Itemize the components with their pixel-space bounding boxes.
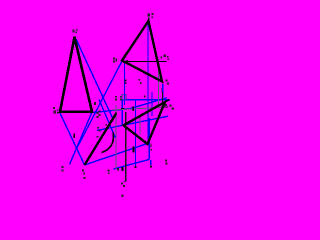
label x near c' bbox=[97, 111, 101, 119]
wire blue D2 from c' bbox=[70, 112, 93, 165]
label colon dots left of square bbox=[115, 96, 121, 100]
triangle profile view a''b''c'' bbox=[122, 21, 162, 82]
label b' bbox=[73, 29, 78, 33]
label mark near x116 y113 bbox=[115, 113, 117, 115]
thick black diagonal bbox=[85, 114, 116, 165]
label right of thin horizontal bbox=[161, 55, 170, 61]
label near D2 end bbox=[61, 166, 63, 171]
wire blue vertical x163 from c'' bbox=[162, 84, 164, 100]
label a' bbox=[53, 107, 59, 114]
wire blue vertical x126 from a'' bbox=[124, 63, 126, 105]
black dash on x122 bbox=[121, 108, 125, 110]
tick on blue line 2 bbox=[121, 167, 123, 171]
wire blue E from a'' down-left bbox=[77, 61, 122, 148]
label c' bbox=[94, 102, 96, 105]
wire blue D4 parallel bbox=[99, 100, 116, 139]
label c1 bbox=[170, 105, 175, 110]
dots on x126 bbox=[125, 80, 127, 82]
label right of line 2 end bbox=[165, 160, 168, 165]
dot under c1 bbox=[165, 104, 167, 106]
tick on S1 bbox=[132, 107, 134, 111]
label 5 under line2 tick bbox=[117, 168, 119, 171]
arc bbox=[102, 133, 114, 153]
wire blue vertical x152 bbox=[151, 92, 153, 116]
wire blue D3 from b' bbox=[76, 39, 113, 119]
wire blue D1 from a' bbox=[60, 112, 85, 165]
wire blue vertical x135.5 bbox=[135, 100, 137, 167]
wire blue shallow S1 bbox=[93, 98, 167, 113]
label dots inside profile triangle bbox=[138, 79, 145, 98]
label b'' bbox=[148, 13, 154, 19]
label near thick diagonal end bbox=[82, 170, 85, 179]
wire blue vertical under b1 bbox=[148, 118, 150, 160]
wire gray vertical x140 bbox=[139, 116, 141, 134]
wire blue shallow S2 through a1 bbox=[97, 116, 168, 130]
label dot near S2 bbox=[97, 124, 107, 132]
wire blue vertical x122 square to a1 bbox=[121, 100, 123, 126]
label a'' bbox=[113, 58, 117, 63]
dot end x135.5 bbox=[135, 166, 137, 168]
wire gray vertical g2 x125.7 bbox=[125, 112, 127, 182]
dot end of stub bbox=[150, 166, 152, 168]
dot near D1 tick bbox=[97, 136, 99, 138]
dots on x163 bbox=[162, 88, 164, 90]
wire blue line 2 lower parallel bbox=[114, 160, 150, 170]
wire gray horizontal y108 bbox=[112, 108, 161, 111]
label b1 bbox=[150, 144, 152, 151]
wire gray vertical x159.5 bbox=[158, 63, 160, 106]
tick on D1 bbox=[73, 133, 75, 137]
tick on blue line 1 bbox=[132, 146, 134, 152]
thin horizontal with left arrow at a'' bbox=[123, 61, 167, 63]
wire blue vertical from apex b'' bbox=[147, 22, 149, 144]
wire blue horizontal H1 y99 bbox=[122, 99, 171, 101]
wire short black vertical x162.5 bbox=[162, 92, 164, 107]
label c'' bbox=[166, 80, 170, 85]
label near x125.7 bottom bbox=[121, 183, 125, 198]
wire blue stub end bbox=[150, 160, 152, 165]
hook at g2 bottom bbox=[124, 181, 126, 183]
wire short black horizontal y107 bbox=[161, 106, 168, 108]
wire gray vertical g1 x116 bbox=[115, 105, 117, 169]
triangle front view a'b'c' bbox=[60, 37, 92, 112]
right-angle square mark bbox=[122, 94, 126, 99]
top edge extension past c1 bbox=[165, 100, 169, 102]
triangle top view a1 b1 c1 bbox=[124, 102, 166, 144]
wire blue line 1 b1 to left bbox=[85, 144, 148, 166]
label dots mid bottom bbox=[108, 170, 110, 175]
